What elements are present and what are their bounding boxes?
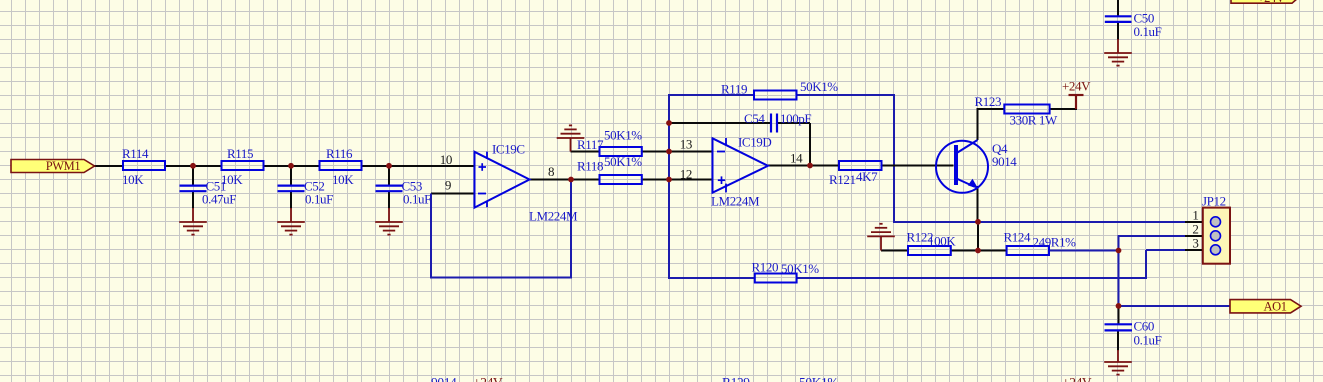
svg-text:R118: R118 [577,159,603,174]
wire Q4 collector vertical [977,108,979,140]
wire node1 to C51 [192,166,194,185]
wire ground to R117 [571,151,600,153]
node emitter [975,219,981,225]
svg-text:13: 13 [680,137,692,152]
resistor R123 [975,94,1059,128]
wire node2 to C52 [290,166,292,185]
svg-text:100K: 100K [928,234,956,249]
wire C60 to ground [1117,330,1119,351]
wire node to R124 [978,250,1007,252]
port AO1 [1230,300,1301,314]
port top right (clipped) [1231,0,1298,5]
svg-text:IC19D: IC19D [738,135,771,150]
port PWM1 [11,159,95,173]
wire R123 to +24V [1050,108,1077,110]
wire C50 to ground [1117,22,1119,40]
op-amp IC19C [440,142,578,224]
svg-text:PWM1: PWM1 [46,159,81,173]
svg-text:9: 9 [445,178,451,193]
svg-text:R115: R115 [227,146,253,161]
wire Q4 emitter vertical [977,186,979,222]
svg-text:10: 10 [440,152,452,167]
ground below C60 [1104,350,1132,375]
svg-text:+24V: +24V [473,375,503,382]
resistor R120 [752,260,820,283]
svg-text:12: 12 [680,167,692,182]
svg-text:2: 2 [1192,222,1198,237]
svg-text:R123: R123 [975,94,1002,109]
wire JP12 pin 2 row [1119,235,1186,237]
wire R118 left [642,179,713,181]
svg-text:0.1uF: 0.1uF [1134,24,1162,39]
wire ground to R122 [881,250,908,252]
wire emitter node down [977,222,979,251]
node pin8 feedback [568,177,574,183]
node AO1/C60 [1116,303,1122,309]
wire to JP12 pin 3 [1146,249,1185,251]
wire IC19C pin 9 lead [431,193,475,195]
wire R124 right lead [1049,250,1119,252]
resistor R124 [1004,230,1077,256]
svg-text:330R 1W: 330R 1W [1010,113,1059,128]
capacitor C52 [278,179,334,207]
svg-text:0.1uF: 0.1uF [403,192,431,207]
svg-text:50K1%: 50K1% [781,261,819,276]
resistor R122 [907,230,957,256]
capacitor C51 [180,179,237,207]
wire R122 to node [951,250,978,252]
wire C54 right lead [777,122,810,124]
svg-text:+24V: +24V [1258,0,1285,5]
node R122/R124 [975,248,981,254]
ground below C52 [277,208,305,235]
wire IC19C feedback bottom [430,277,572,279]
svg-text:AO1: AO1 [1263,300,1286,314]
wire R115 to R116 [264,165,320,167]
node R115/C52 [288,163,294,169]
ground above R122 [867,224,895,251]
svg-text:JP12: JP12 [1202,194,1226,209]
ground below C53 [375,208,403,235]
capacitor C60 [1105,319,1162,348]
svg-text:1: 1 [1192,208,1198,223]
resistor R114 [122,146,165,187]
resistor R118 [577,154,642,184]
svg-text:LM224M: LM224M [529,209,578,224]
wire PWM1 to R114 [94,165,123,167]
svg-text:0.1uF: 0.1uF [305,192,333,207]
svg-text:14: 14 [790,151,803,166]
svg-text:50K1%: 50K1% [799,375,838,382]
svg-text:C54: C54 [744,111,765,126]
svg-text:4K7: 4K7 [856,169,878,184]
node R124/JP12-2 [1116,248,1122,254]
capacitor C54 [744,111,811,133]
wire R114 to R115 [165,165,222,167]
svg-text:R119: R119 [721,82,747,97]
svg-text:0.1uF: 0.1uF [1134,333,1162,348]
svg-text:IC19C: IC19C [492,142,525,157]
resistor R116 [320,146,362,187]
wire R120 left lead [669,277,755,279]
node pin12 [666,177,672,183]
node R116/C53 [386,163,392,169]
svg-text:50K1%: 50K1% [604,154,642,169]
wire C51 to ground [192,191,194,209]
node pin13 [666,149,672,155]
wire AO1 node to C60 [1118,306,1120,324]
svg-text:R117: R117 [577,137,604,152]
ground above R117 [557,125,585,151]
svg-text:R120: R120 [752,260,779,275]
wire R119 to emitter node vertical [893,95,895,223]
svg-text:50K1%: 50K1% [800,79,838,94]
connector JP12 [1192,194,1230,264]
svg-text:3: 3 [1192,236,1198,251]
wire C54 to output node [809,123,811,166]
svg-text:R124: R124 [1004,230,1031,245]
wire AO1 node to port [1119,305,1231,307]
wire IC19C output pin 8 [530,179,600,181]
transistor Q4 [936,140,1017,193]
svg-text:C60: C60 [1134,319,1154,334]
wire emitter row to JP12 pin 1 [894,221,1185,223]
ground below C50 [1104,39,1132,66]
svg-text:R116: R116 [326,146,353,161]
wire C52 to ground [290,191,292,209]
power +24V [1062,79,1091,110]
svg-text:100pF: 100pF [780,111,811,126]
wire IC19D pin 14 to R121 [768,165,839,167]
svg-text:+24V: +24V [1062,375,1092,382]
resistor R121 [829,161,882,187]
svg-text:8: 8 [548,164,554,179]
resistor R115 [221,146,264,187]
wire C54 left lead [669,122,771,124]
capacitor C50 [1105,11,1162,40]
wire feedback node vertical [668,94,670,279]
wire R119 right lead [797,94,896,96]
svg-text:50K1%: 50K1% [604,128,642,143]
wire pin2 node vertical to AO1 node [1118,235,1120,306]
wire R116 to IC19C pin 10 [362,165,475,167]
svg-text:0.47uF: 0.47uF [202,192,236,207]
capacitor C53 [376,179,432,207]
wire IC19C feedback vertical left [430,194,432,279]
svg-text:LM224M: LM224M [711,194,760,209]
svg-text:10K: 10K [332,172,354,187]
node pin14/C54 [807,163,813,169]
wire node3 to C53 [388,166,390,185]
wire R117 to IC19D pin 13 [642,151,713,153]
svg-text:249R1%: 249R1% [1033,235,1077,250]
wire IC19C feedback vertical right [570,180,572,278]
svg-text:R114: R114 [122,146,149,161]
svg-text:9014: 9014 [992,154,1017,169]
svg-text:R121: R121 [829,172,856,187]
wire C53 to ground [388,191,390,209]
wire R120 to JP12 pin 3 column [797,277,1147,279]
wire collector to R123 [978,108,1005,110]
ground below C51 [179,208,207,235]
node R114/C51 [190,163,196,169]
wire R119 left lead [669,94,754,96]
svg-text:10K: 10K [122,172,144,187]
wire top edge to C50 [1117,0,1119,16]
svg-text:9014: 9014 [431,375,457,382]
resistor R119 [721,79,838,100]
node C54 branch [666,120,672,126]
resistor R117 [577,128,642,157]
svg-text:+24V: +24V [1062,79,1091,94]
op-amp IC19D [680,135,803,209]
wire R121 to Q4 base [882,165,954,167]
svg-text:R129: R129 [722,375,750,382]
wire pin3 column vertical [1145,250,1147,279]
